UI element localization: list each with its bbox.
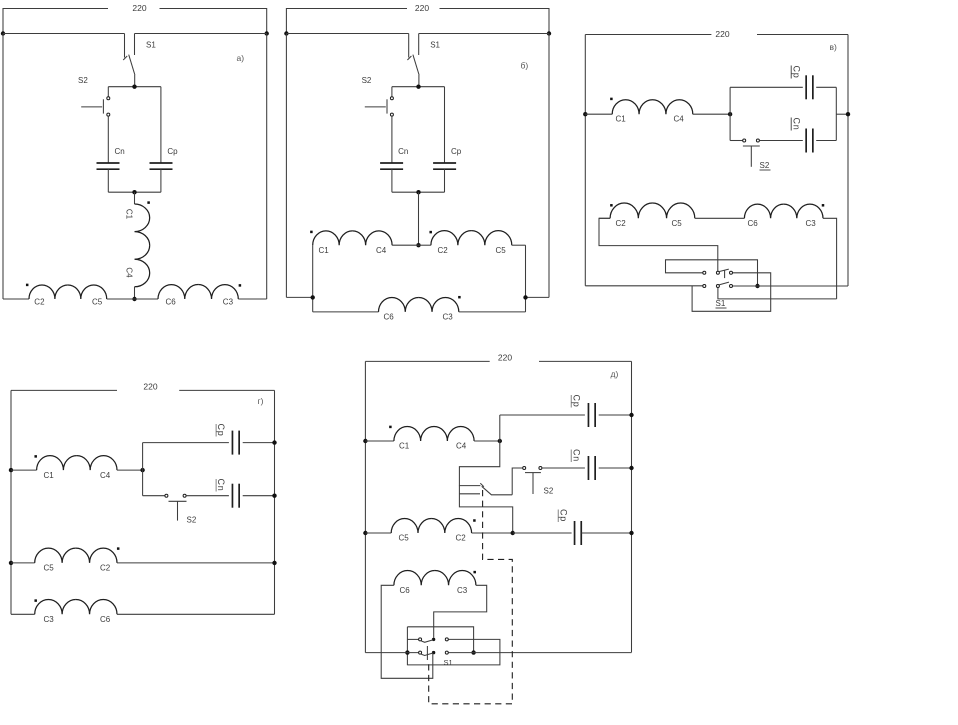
switch S2 actuator (b) xyxy=(365,106,386,108)
winding C6 (v) xyxy=(744,204,783,218)
wire row3 left segment (g) xyxy=(11,613,35,615)
svg-text:C5: C5 xyxy=(496,246,507,255)
node row1 left (v) xyxy=(583,112,587,116)
wire right rail (d) xyxy=(631,361,633,652)
svg-text:C5: C5 xyxy=(399,534,410,543)
changeover blade (d) xyxy=(482,486,513,495)
wire right rail (g) xyxy=(274,390,276,614)
node row2 junction (d) xyxy=(511,531,515,535)
node Cp right rail (d) xyxy=(629,413,633,417)
wire Cn lower stub (b) xyxy=(391,169,393,192)
switch S1 contacts bottom row (v) xyxy=(703,285,706,288)
node Cp right rail (g) xyxy=(272,440,276,444)
capacitor Cp (b) xyxy=(433,162,456,164)
svg-text:C3: C3 xyxy=(457,586,468,595)
svg-text:C4: C4 xyxy=(125,267,134,278)
switch S2 actuator (d) xyxy=(525,472,541,474)
wire 220 top-right (v) xyxy=(757,34,848,36)
svg-text:Cp: Cp xyxy=(167,147,178,156)
wire Cp branch upper (b) xyxy=(444,87,446,163)
winding C3 (d) xyxy=(435,571,476,586)
svg-text:C4: C4 xyxy=(456,442,467,451)
svg-text:C6: C6 xyxy=(748,219,759,228)
winding C3 (a) xyxy=(198,285,238,299)
wire S1 blade bottom out (v) xyxy=(718,288,837,299)
capacitor Cp (g) xyxy=(231,431,233,455)
wire Cn branch mid (d) xyxy=(542,467,585,469)
wire box to winding C1 (a) xyxy=(134,192,136,204)
svg-text:C3: C3 xyxy=(223,298,234,307)
changeover lower contact wire (d) xyxy=(459,486,512,533)
node cap box left (v) xyxy=(728,112,732,116)
wire row2 right segment (g) xyxy=(117,562,275,564)
wire Cp branch right (g) xyxy=(243,442,275,444)
svg-text:г): г) xyxy=(258,396,264,406)
wire row1 right segment (g) xyxy=(117,469,143,471)
winding C4 (d) xyxy=(434,427,474,441)
svg-text:Cn: Cn xyxy=(571,449,581,462)
switch S2 actuator (a) xyxy=(81,106,102,108)
svg-text:C2: C2 xyxy=(100,564,111,573)
wire top bus right (a) xyxy=(135,33,267,35)
svg-text:S2: S2 xyxy=(78,76,88,85)
polarity dot C3 (v) xyxy=(822,204,825,207)
winding C1 (a) xyxy=(135,204,150,245)
svg-text:C5: C5 xyxy=(92,298,103,307)
capacitor Cn (v) xyxy=(805,129,807,153)
winding C6 (g) xyxy=(76,599,117,614)
switch S1 contacts top row (v) xyxy=(703,271,706,274)
winding C6 (d) xyxy=(394,571,435,586)
wire bottom bus right (v) xyxy=(733,285,849,287)
svg-text:C5: C5 xyxy=(672,219,683,228)
svg-text:д): д) xyxy=(611,369,619,379)
svg-text:220: 220 xyxy=(715,29,729,39)
node row1 left (d) xyxy=(363,439,367,443)
winding C1 (v) xyxy=(612,100,652,115)
wire box bottom (b) xyxy=(392,191,445,193)
svg-text:C4: C4 xyxy=(376,246,387,255)
capacitor Cn (b) xyxy=(380,162,403,164)
wire cap box right vertical (v) xyxy=(835,87,837,140)
wire Cp lower stub (b) xyxy=(444,169,446,192)
wire bottom bus left (d) xyxy=(365,652,418,654)
wire S2 to Cn (a) xyxy=(107,116,109,163)
wire box top (a) xyxy=(108,86,161,88)
wire S1 frame left vertical (d) xyxy=(406,627,408,665)
svg-text:S1: S1 xyxy=(716,299,726,308)
wire S1 top path (d) xyxy=(407,627,473,653)
svg-text:C6: C6 xyxy=(400,586,411,595)
polarity dot C3 (b) xyxy=(458,296,461,299)
svg-text:C1: C1 xyxy=(44,471,55,480)
wire row2 left segment (d) xyxy=(365,532,391,534)
wire 220 top-left (d) xyxy=(365,360,489,362)
winding C1 (b) xyxy=(313,231,353,245)
wire row1 right segment (d) xyxy=(474,440,500,442)
wire box to row1 (b) xyxy=(418,192,420,245)
winding C2 (g) xyxy=(76,548,117,563)
wire top bus right (b) xyxy=(419,33,549,35)
wire row1 mid-right (b) xyxy=(419,244,431,246)
node row2 left (d) xyxy=(363,531,367,535)
wire row3 right segment (g) xyxy=(117,613,275,615)
winding C5 (b) xyxy=(471,231,511,246)
winding C2 (b) xyxy=(431,231,471,246)
wire row1 left segment (v) xyxy=(585,113,612,115)
wire Cn branch right (g) xyxy=(243,495,275,497)
svg-text:Cp: Cp xyxy=(216,424,226,437)
svg-text:C6: C6 xyxy=(100,615,111,624)
wire reversing link (v) xyxy=(666,260,758,286)
node reversing link joins bottom bus (v) xyxy=(755,284,759,288)
wire S2 upper stub (a) xyxy=(107,87,109,97)
svg-text:в): в) xyxy=(830,42,838,52)
polarity dot C2 (b) xyxy=(429,231,432,234)
wire bottom middle segment (a) xyxy=(107,298,158,300)
svg-text:Cp: Cp xyxy=(558,509,568,522)
wire top bus left (b) xyxy=(286,33,408,35)
polarity dot C1 (g) xyxy=(34,455,37,458)
wire row2 to Cw (d) xyxy=(513,532,572,534)
winding C2 (a) xyxy=(29,285,68,299)
svg-text:C2: C2 xyxy=(34,298,45,307)
switch S1 contacts top row (d) xyxy=(419,638,422,641)
wire box to right rail (v) xyxy=(836,113,848,115)
wire row1 left segment (d) xyxy=(365,440,394,442)
wire box top (b) xyxy=(392,86,445,88)
switch S1 (a) xyxy=(124,34,126,58)
wire left rail link (b) xyxy=(286,296,312,298)
winding C6 (a) xyxy=(158,285,198,299)
node right rail top (b) xyxy=(547,31,551,35)
wire row1 left segment (g) xyxy=(11,469,37,471)
node Cn right rail (g) xyxy=(272,494,276,498)
winding C5 (g) xyxy=(35,548,76,563)
polarity dot C1 (b) xyxy=(310,231,313,234)
node Cn right rail (d) xyxy=(629,466,633,470)
wire 220 feed top-left (a) xyxy=(3,9,108,34)
winding C6 (b) xyxy=(379,297,419,311)
wire row1 right segment (v) xyxy=(693,113,730,115)
winding C2 (d) xyxy=(431,519,471,533)
wire left rail (a) xyxy=(2,34,4,300)
node S1 top path joins bus (d) xyxy=(471,650,475,654)
wire right rail (v) xyxy=(847,35,849,287)
wire row3 left to S1 (d) xyxy=(381,585,433,678)
wire S1 top-right to bottom bus (v) xyxy=(692,273,771,312)
polarity dot C2 (v) xyxy=(610,204,613,207)
wire Cw right (d) xyxy=(581,532,631,534)
svg-text:220: 220 xyxy=(132,3,146,13)
svg-text:S2: S2 xyxy=(187,516,197,525)
capacitor Cw (d) xyxy=(574,521,576,545)
node row1 to Cp branch (d) xyxy=(498,439,502,443)
wire S1 top-right wrap (d) xyxy=(407,639,500,665)
wire 220 feed top-right (a) xyxy=(160,9,267,34)
svg-text:C3: C3 xyxy=(44,615,55,624)
capacitor Cn (a) xyxy=(97,162,120,164)
svg-text:S1: S1 xyxy=(430,41,440,50)
wire Cn branch right (d) xyxy=(599,467,632,469)
wire left rail (d) xyxy=(364,361,366,652)
wire row3 right to S1 (d) xyxy=(434,585,487,638)
winding C1 (d) xyxy=(394,427,434,441)
node row2 right rail (d) xyxy=(629,531,633,535)
node cap box left (g) xyxy=(140,468,144,472)
svg-text:C2: C2 xyxy=(616,219,627,228)
switch S2 actuator (v) xyxy=(743,145,760,147)
changeover contact tick (d) xyxy=(480,483,484,486)
wire Cn branch left stub (v) xyxy=(730,140,743,142)
wire row1 mid-left (b) xyxy=(392,244,418,246)
svg-text:S1: S1 xyxy=(444,658,453,667)
wire S2 to Cn (b) xyxy=(391,116,393,163)
svg-text:Cp: Cp xyxy=(571,395,581,408)
svg-text:Cp: Cp xyxy=(791,66,801,79)
polarity dot C2 (g) xyxy=(117,547,120,550)
wire row2 mid segment (d) xyxy=(472,532,513,534)
node S1 frame crosses bus (d) xyxy=(405,650,409,654)
wire row2 left segment (b) xyxy=(313,311,379,313)
node frame left (b) xyxy=(311,295,315,299)
switch S2 actuator (g) xyxy=(169,500,187,502)
svg-text:220: 220 xyxy=(415,3,429,13)
wire row1 right end (b) xyxy=(512,244,526,246)
svg-text:C1: C1 xyxy=(125,209,134,220)
node S1 to box (a) xyxy=(132,85,136,89)
polarity dot C1 (v) xyxy=(610,98,613,101)
switch S2 contacts (a) xyxy=(107,97,110,100)
wire 220 feed top-left (b) xyxy=(286,9,407,34)
svg-text:S2: S2 xyxy=(362,76,372,85)
switch S2 contacts (d) xyxy=(523,467,526,470)
svg-text:220: 220 xyxy=(498,353,512,363)
wire Cp branch left (g) xyxy=(143,442,229,444)
svg-text:C4: C4 xyxy=(100,471,111,480)
polarity dot C3 (d) xyxy=(473,571,476,574)
node box bottom (b) xyxy=(416,190,420,194)
wire box bottom (a) xyxy=(108,191,161,193)
winding C3 (b) xyxy=(419,297,459,311)
wire Cp branch right (v) xyxy=(816,86,836,88)
wire left rail (g) xyxy=(10,390,12,614)
svg-text:б): б) xyxy=(521,61,529,71)
capacitor Cp (v) xyxy=(805,75,807,99)
winding C4 (v) xyxy=(653,100,693,115)
svg-text:Cn: Cn xyxy=(216,479,226,492)
svg-text:C2: C2 xyxy=(438,246,449,255)
node frame right (b) xyxy=(523,295,527,299)
wire Cp branch riser (d) xyxy=(499,415,501,441)
wire row2 right to S1 (v) xyxy=(823,218,837,299)
switch S1 top blade (v) xyxy=(719,269,728,271)
winding C1 (g) xyxy=(37,456,77,470)
polarity dot C1 (a) xyxy=(147,201,150,204)
wire 220 top-left (v) xyxy=(585,34,711,36)
polarity dot C2 (d) xyxy=(473,519,476,522)
svg-text:C1: C1 xyxy=(399,442,410,451)
wire Cp lower stub (a) xyxy=(160,169,162,192)
svg-text:S1: S1 xyxy=(146,41,156,50)
wire Cp branch right (d) xyxy=(599,414,632,416)
wire Cn lower stub (a) xyxy=(107,169,109,192)
wire blade to Cn branch (d) xyxy=(512,468,523,495)
polarity dot C2 (a) xyxy=(26,284,29,287)
node row2 left (g) xyxy=(9,561,13,565)
wire cap box vertical (g) xyxy=(142,443,144,496)
winding C4 (a) xyxy=(135,245,150,286)
winding C5 (v) xyxy=(652,203,694,218)
wire row2 right segment (b) xyxy=(459,311,526,313)
wire row2 middle segment (v) xyxy=(695,217,745,219)
wire 220 top-right (d) xyxy=(539,360,632,362)
wire bottom right segment (a) xyxy=(238,298,266,300)
switch S1 top blade (d) xyxy=(421,640,433,643)
svg-text:C1: C1 xyxy=(616,115,627,124)
switch S2 contacts (b) xyxy=(390,97,393,100)
node box bottom (a) xyxy=(132,190,136,194)
wire right rail (a) xyxy=(266,34,268,300)
polarity dot C3 (a) xyxy=(239,284,242,287)
wire 220 feed top-right (b) xyxy=(440,9,550,34)
wire left rail (v) xyxy=(584,35,586,286)
node right rail top (a) xyxy=(265,31,269,35)
switch S1 bottom blade (v) xyxy=(719,282,729,285)
wire winding frame right (b) xyxy=(525,245,527,312)
winding C3 (g) xyxy=(35,599,76,614)
winding C2 (v) xyxy=(610,203,652,218)
node S1 to box (b) xyxy=(416,85,420,89)
winding C5 (a) xyxy=(68,285,107,299)
switch S1 (b) xyxy=(408,34,410,58)
svg-text:C3: C3 xyxy=(806,219,817,228)
wire winding frame left (b) xyxy=(312,245,314,312)
wire Cn branch right (v) xyxy=(816,140,836,142)
svg-text:S2: S2 xyxy=(760,161,770,170)
node row1 center (b) xyxy=(416,243,420,247)
capacitor Cp (a) xyxy=(150,162,173,164)
capacitor Cp (d) xyxy=(587,403,589,427)
node row1 left (g) xyxy=(9,468,13,472)
switch S1 contacts bottom row (d) xyxy=(419,651,422,654)
svg-text:220: 220 xyxy=(143,382,157,392)
wire right rail link (b) xyxy=(526,296,550,298)
wire 220 top-left (g) xyxy=(11,389,117,391)
wire bottom bus right (d) xyxy=(448,652,631,654)
wire Cp branch left (d) xyxy=(500,414,585,416)
wire bottom bus left (v) xyxy=(585,285,703,287)
wire S2 upper stub (b) xyxy=(391,87,393,97)
switch S1 bottom blade (d) xyxy=(421,653,433,656)
winding C5 (d) xyxy=(391,519,431,533)
node row2 right rail (g) xyxy=(272,561,276,565)
svg-text:Cp: Cp xyxy=(451,147,462,156)
polarity dot C3 (g) xyxy=(34,599,37,602)
wire winding C4 to bottom node (a) xyxy=(134,287,136,299)
capacitor Cn (g) xyxy=(231,484,233,508)
svg-text:C6: C6 xyxy=(384,312,395,321)
svg-text:Cn: Cn xyxy=(398,147,408,156)
node left rail top (a) xyxy=(1,31,5,35)
svg-text:Cn: Cn xyxy=(791,118,801,131)
svg-text:C5: C5 xyxy=(44,564,55,573)
wire cap box left vertical (v) xyxy=(729,87,731,140)
wire bottom left segment (a) xyxy=(3,298,29,300)
wire Cn branch mid (g) xyxy=(186,495,229,497)
mechanical link dashed (d) xyxy=(429,490,513,704)
wire row2 to S1 top-middle (v) xyxy=(599,218,718,271)
winding C3 (v) xyxy=(784,204,823,218)
wire Cp branch upper (a) xyxy=(160,87,162,163)
svg-text:C1: C1 xyxy=(319,246,330,255)
wire right rail (b) xyxy=(548,34,550,298)
svg-text:S2: S2 xyxy=(544,487,554,496)
svg-text:a): a) xyxy=(237,53,245,63)
wire left rail (b) xyxy=(285,34,287,298)
wire top bus left (a) xyxy=(3,33,125,35)
wire Cn branch left stub (g) xyxy=(143,495,165,497)
wire Cn branch mid (v) xyxy=(759,140,802,142)
wire row2 left stub (v) xyxy=(599,217,610,219)
node left rail top (b) xyxy=(284,31,288,35)
svg-text:Cn: Cn xyxy=(115,147,125,156)
wire 220 top-right (g) xyxy=(179,389,274,391)
polarity dot C1 (d) xyxy=(389,426,392,429)
svg-text:C3: C3 xyxy=(443,312,454,321)
switch S1 link bar (d) xyxy=(426,646,428,660)
capacitor Cn (d) xyxy=(587,456,589,480)
switch S2 contacts (g) xyxy=(165,494,168,497)
wire row1 to changeover (d) xyxy=(459,441,499,486)
svg-text:C4: C4 xyxy=(674,115,685,124)
wire Cp branch left (v) xyxy=(730,86,803,88)
switch S2 contacts (v) xyxy=(743,139,746,142)
svg-text:C2: C2 xyxy=(456,534,467,543)
node right rail mid (v) xyxy=(846,112,850,116)
node star point (a) xyxy=(132,297,136,301)
wire row2 left segment (g) xyxy=(11,562,35,564)
svg-text:C6: C6 xyxy=(166,298,177,307)
wire S1 top-left contact stub (d) xyxy=(407,638,418,640)
winding C4 (b) xyxy=(352,231,392,245)
winding C4 (g) xyxy=(77,456,117,470)
